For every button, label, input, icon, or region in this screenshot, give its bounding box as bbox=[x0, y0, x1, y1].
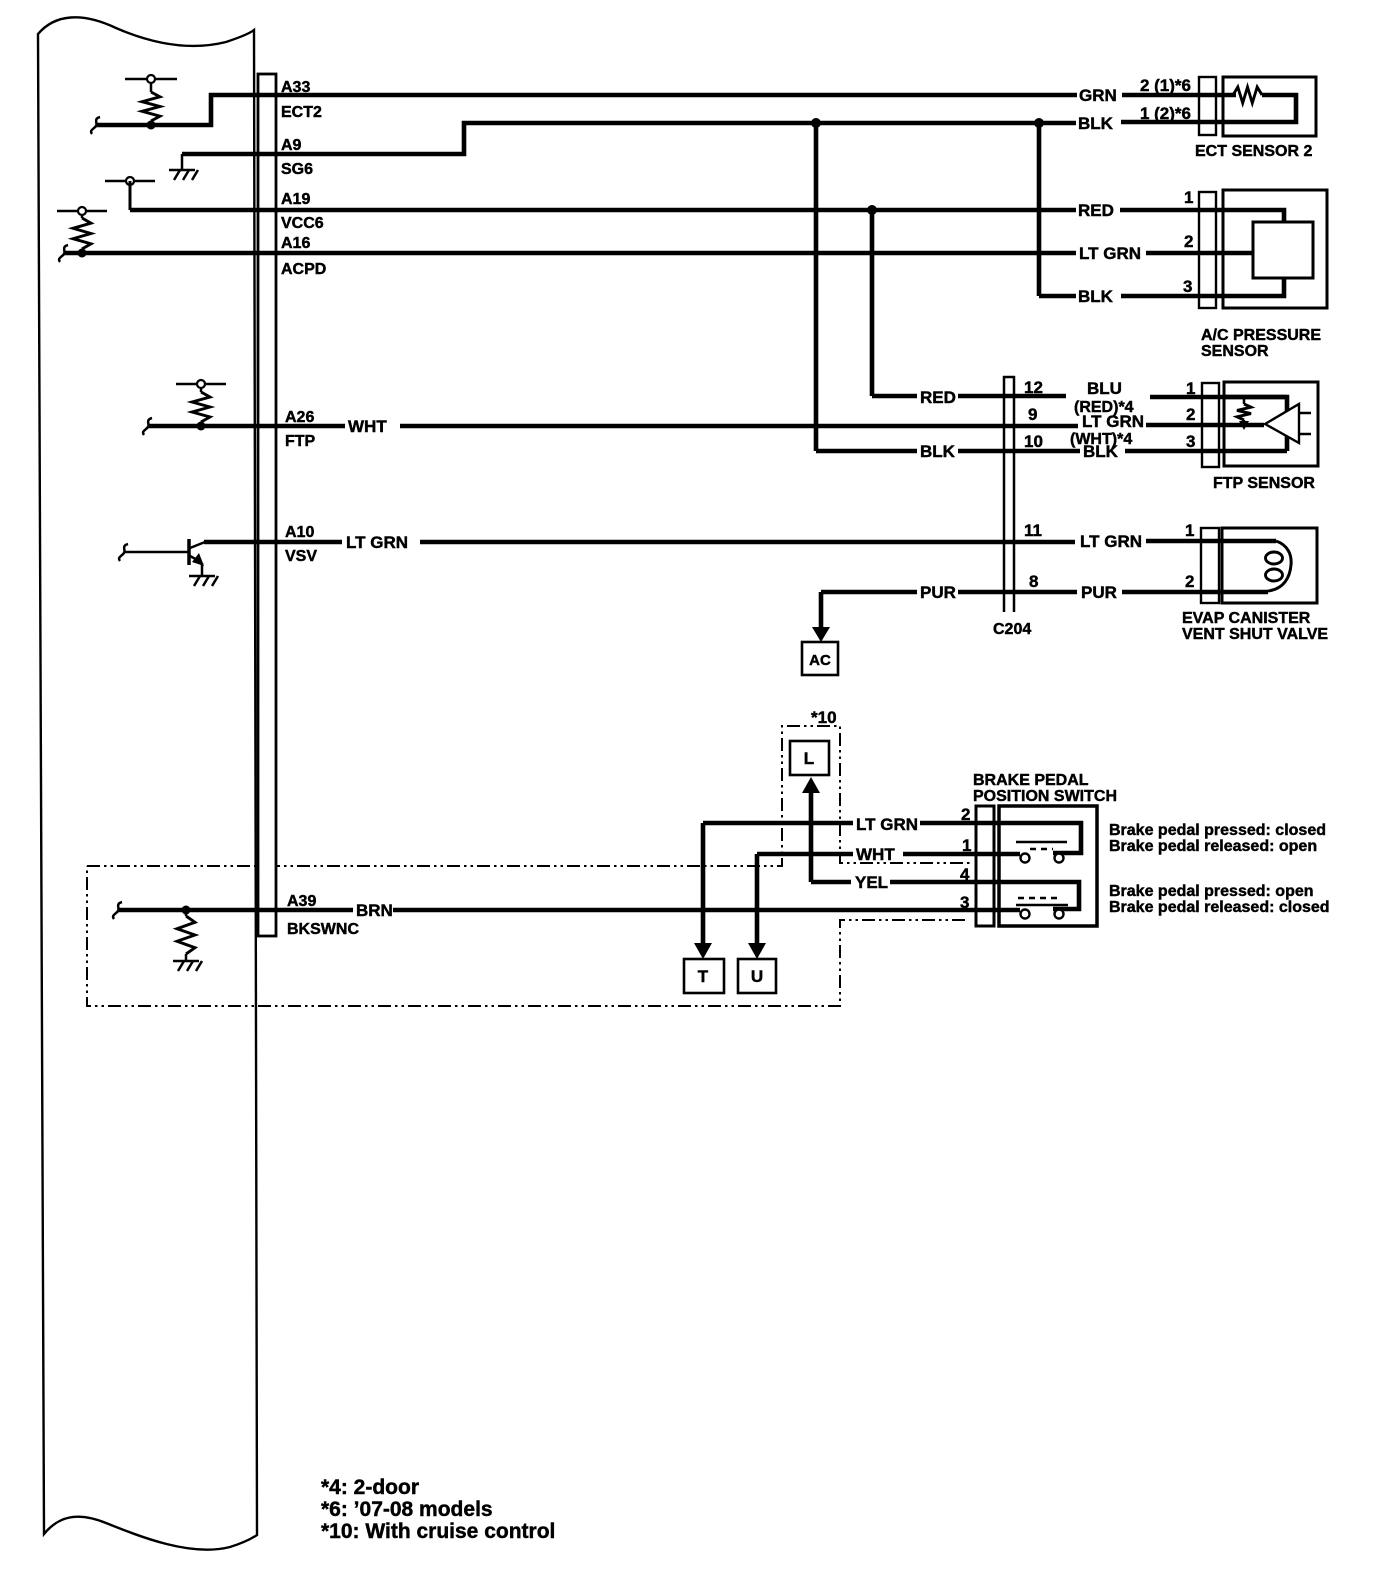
svg-text:BRAKE PEDAL: BRAKE PEDAL bbox=[973, 772, 1089, 789]
svg-text:SENSOR: SENSOR bbox=[1201, 343, 1269, 360]
svg-text:2: 2 bbox=[1184, 232, 1193, 251]
svg-text:9: 9 bbox=[1028, 405, 1037, 424]
svg-text:A39: A39 bbox=[287, 893, 316, 910]
svg-text:*10: With cruise control: *10: With cruise control bbox=[321, 1520, 555, 1543]
svg-text:2: 2 bbox=[961, 805, 970, 824]
svg-text:BKSWNC: BKSWNC bbox=[287, 921, 359, 938]
svg-text:BLK: BLK bbox=[920, 442, 956, 461]
svg-text:BLK: BLK bbox=[1078, 114, 1114, 133]
svg-text:PUR: PUR bbox=[1081, 583, 1117, 602]
svg-text:A10: A10 bbox=[285, 524, 314, 541]
svg-text:C204: C204 bbox=[993, 621, 1031, 638]
svg-text:*6: ’07-08 models: *6: ’07-08 models bbox=[321, 1498, 493, 1521]
svg-text:L: L bbox=[804, 749, 814, 768]
svg-text:U: U bbox=[751, 967, 763, 986]
svg-text:2 (1)*6: 2 (1)*6 bbox=[1140, 76, 1191, 95]
svg-text:1: 1 bbox=[1184, 188, 1193, 207]
svg-text:Brake pedal pressed: open: Brake pedal pressed: open bbox=[1109, 883, 1314, 900]
svg-text:3: 3 bbox=[1186, 432, 1195, 451]
svg-text:Brake pedal released: closed: Brake pedal released: closed bbox=[1109, 899, 1330, 916]
svg-text:WHT: WHT bbox=[856, 845, 895, 864]
svg-text:POSITION SWITCH: POSITION SWITCH bbox=[973, 788, 1117, 805]
svg-text:1: 1 bbox=[1185, 521, 1194, 540]
svg-text:LT GRN: LT GRN bbox=[856, 815, 918, 834]
svg-text:3: 3 bbox=[960, 893, 969, 912]
svg-text:2: 2 bbox=[1186, 405, 1195, 424]
svg-text:VCC6: VCC6 bbox=[281, 215, 324, 232]
svg-text:RED: RED bbox=[1078, 201, 1114, 220]
svg-text:1: 1 bbox=[962, 836, 971, 855]
svg-text:3: 3 bbox=[1183, 277, 1192, 296]
svg-text:VENT SHUT VALVE: VENT SHUT VALVE bbox=[1182, 626, 1328, 643]
svg-text:1: 1 bbox=[1186, 379, 1195, 398]
svg-text:A26: A26 bbox=[285, 409, 314, 426]
svg-text:A19: A19 bbox=[281, 191, 310, 208]
svg-text:(WHT)*4: (WHT)*4 bbox=[1070, 431, 1132, 448]
svg-text:SG6: SG6 bbox=[281, 161, 313, 178]
svg-text:Brake pedal released: open: Brake pedal released: open bbox=[1109, 838, 1317, 855]
svg-text:12: 12 bbox=[1024, 378, 1043, 397]
svg-text:RED: RED bbox=[920, 388, 956, 407]
svg-text:LT GRN: LT GRN bbox=[346, 533, 408, 552]
svg-text:ACPD: ACPD bbox=[281, 261, 326, 278]
svg-text:Brake pedal pressed: closed: Brake pedal pressed: closed bbox=[1109, 822, 1326, 839]
svg-text:2: 2 bbox=[1185, 572, 1194, 591]
svg-text:EVAP CANISTER: EVAP CANISTER bbox=[1182, 610, 1311, 627]
svg-text:FTP: FTP bbox=[285, 433, 316, 450]
svg-text:A9: A9 bbox=[281, 137, 302, 154]
svg-text:BLU: BLU bbox=[1087, 379, 1122, 398]
svg-text:ECT SENSOR 2: ECT SENSOR 2 bbox=[1195, 143, 1312, 160]
svg-text:VSV: VSV bbox=[285, 548, 317, 565]
svg-text:8: 8 bbox=[1029, 572, 1038, 591]
svg-text:A/C PRESSURE: A/C PRESSURE bbox=[1201, 327, 1321, 344]
svg-text:YEL: YEL bbox=[855, 873, 888, 892]
svg-text:BRN: BRN bbox=[356, 901, 393, 920]
svg-text:1 (2)*6: 1 (2)*6 bbox=[1140, 104, 1191, 123]
svg-text:FTP SENSOR: FTP SENSOR bbox=[1213, 475, 1315, 492]
svg-text:AC: AC bbox=[809, 652, 831, 669]
svg-text:*10: *10 bbox=[811, 708, 837, 727]
svg-text:(RED)*4: (RED)*4 bbox=[1074, 399, 1134, 416]
svg-text:LT GRN: LT GRN bbox=[1080, 532, 1142, 551]
svg-text:WHT: WHT bbox=[348, 417, 387, 436]
svg-text:PUR: PUR bbox=[920, 583, 956, 602]
svg-text:A33: A33 bbox=[281, 79, 310, 96]
svg-text:BLK: BLK bbox=[1078, 287, 1114, 306]
svg-text:10: 10 bbox=[1024, 432, 1043, 451]
svg-text:LT GRN: LT GRN bbox=[1079, 244, 1141, 263]
svg-text:*4: 2-door: *4: 2-door bbox=[321, 1476, 419, 1499]
svg-text:ECT2: ECT2 bbox=[281, 104, 322, 121]
svg-text:4: 4 bbox=[960, 865, 970, 884]
svg-text:GRN: GRN bbox=[1079, 86, 1117, 105]
svg-text:11: 11 bbox=[1024, 521, 1042, 540]
svg-text:A16: A16 bbox=[281, 235, 310, 252]
svg-text:T: T bbox=[698, 967, 709, 986]
